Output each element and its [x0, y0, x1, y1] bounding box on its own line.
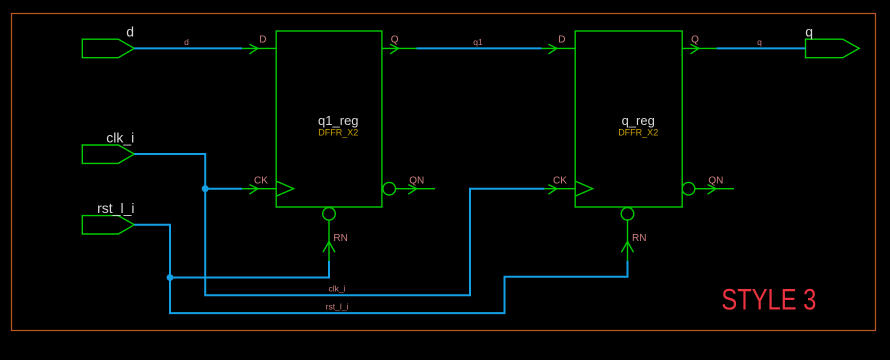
U1 pin QN stub — [396, 188, 436, 190]
svg-text:q: q — [805, 23, 813, 39]
svg-text:clk_i: clk_i — [106, 130, 134, 146]
wire net clk_i — [134, 154, 544, 295]
U1 pin QN bubble — [383, 182, 396, 195]
svg-text:DFFR_X2: DFFR_X2 — [618, 127, 658, 137]
U2 pin QN arrow — [708, 185, 716, 195]
port rst_l_i — [82, 200, 134, 234]
port clk_i — [82, 130, 134, 164]
U1 pin Q stub — [382, 47, 417, 49]
svg-text:CK: CK — [254, 175, 268, 186]
svg-text:QN: QN — [708, 175, 723, 186]
svg-text:D: D — [259, 34, 266, 45]
svg-text:Q: Q — [691, 34, 699, 45]
U1 pin RN arrow — [323, 242, 335, 253]
svg-text:rst_l_i: rst_l_i — [97, 200, 134, 216]
svg-text:Q: Q — [391, 34, 399, 45]
svg-text:clk_i: clk_i — [328, 284, 345, 294]
U2 pin QN stub — [695, 188, 734, 190]
U1 pin RN stub — [328, 220, 330, 261]
U2 pin D arrow — [548, 44, 556, 54]
svg-text:q1: q1 — [473, 37, 483, 47]
U1 pin CK stub — [242, 188, 276, 190]
svg-text:q: q — [757, 37, 762, 47]
U2 pin Q stub — [682, 47, 716, 49]
svg-text:RN: RN — [333, 233, 347, 244]
wire net rst_l_i — [134, 225, 627, 313]
U1 clock triangle — [276, 181, 293, 196]
svg-text:D: D — [558, 34, 565, 45]
U2 clock triangle — [575, 181, 592, 196]
junction clk — [202, 185, 209, 192]
wire net q1 — [417, 47, 542, 49]
U2 pin Q arrow — [690, 44, 698, 54]
wire clk branch to U1 CK — [205, 188, 242, 190]
junction rst — [167, 274, 174, 281]
svg-text:CK: CK — [553, 175, 567, 186]
U2 pin CK stub — [544, 188, 575, 190]
port d — [82, 23, 134, 57]
port q — [805, 23, 859, 57]
U1 pin D stub — [242, 47, 276, 49]
svg-text:DFFR_X2: DFFR_X2 — [318, 127, 358, 137]
U2 pin RN arrow — [621, 242, 633, 253]
svg-text:RN: RN — [632, 233, 646, 244]
flip-flop U1 q1_reg body — [276, 31, 382, 207]
svg-text:q_reg: q_reg — [622, 113, 655, 128]
U1 pin CK arrow — [249, 185, 257, 195]
svg-text:rst_l_i: rst_l_i — [326, 302, 349, 312]
flip-flop U2 q_reg body — [575, 31, 682, 207]
U2 pin RN bubble — [621, 208, 634, 221]
wire net q — [717, 47, 806, 49]
U2 pin D stub — [542, 47, 576, 49]
U1 pin Q arrow — [390, 44, 398, 54]
svg-text:STYLE 3: STYLE 3 — [721, 283, 816, 316]
svg-text:d: d — [184, 37, 189, 47]
U2 pin QN bubble — [682, 182, 695, 195]
U2 pin CK arrow — [548, 185, 556, 195]
U2 pin RN stub — [627, 220, 629, 261]
svg-text:d: d — [126, 23, 134, 39]
U1 pin D arrow — [249, 44, 257, 54]
U1 pin RN bubble — [323, 208, 336, 221]
U1 pin QN arrow — [408, 185, 416, 195]
wire rst branch to U1 RN — [170, 261, 329, 278]
wire net d — [134, 47, 242, 49]
svg-text:QN: QN — [409, 175, 424, 186]
svg-text:q1_reg: q1_reg — [318, 113, 358, 128]
